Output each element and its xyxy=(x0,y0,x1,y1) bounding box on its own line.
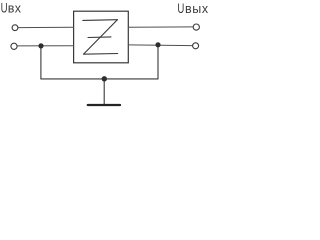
impedance symbol Z bottom stroke xyxy=(84,53,118,56)
junction dot right xyxy=(155,42,160,47)
junction dot ground xyxy=(102,76,107,81)
two-port box Z xyxy=(74,11,129,63)
ground bar xyxy=(88,104,120,106)
wire right down xyxy=(157,45,159,79)
svg-text:U: U xyxy=(1,0,8,16)
junction dot left xyxy=(38,43,43,48)
wire output top xyxy=(128,26,193,28)
wire bottom return xyxy=(41,78,158,80)
wire ground stem xyxy=(103,79,105,104)
terminal output bottom xyxy=(193,43,199,49)
impedance symbol Z top stroke xyxy=(83,19,118,22)
svg-text:вых: вых xyxy=(185,2,209,16)
terminal output top xyxy=(193,24,199,30)
wire input bottom xyxy=(17,45,73,47)
svg-text:U: U xyxy=(177,0,184,16)
wire input top xyxy=(18,26,74,28)
impedance symbol Z diagonal xyxy=(84,20,118,54)
wire left down xyxy=(40,46,42,79)
terminal input bottom xyxy=(11,43,17,49)
wire output bottom xyxy=(128,44,192,47)
svg-text:вх: вх xyxy=(8,2,22,16)
impedance symbol Z middle bar xyxy=(88,36,111,39)
terminal input top xyxy=(12,25,18,31)
